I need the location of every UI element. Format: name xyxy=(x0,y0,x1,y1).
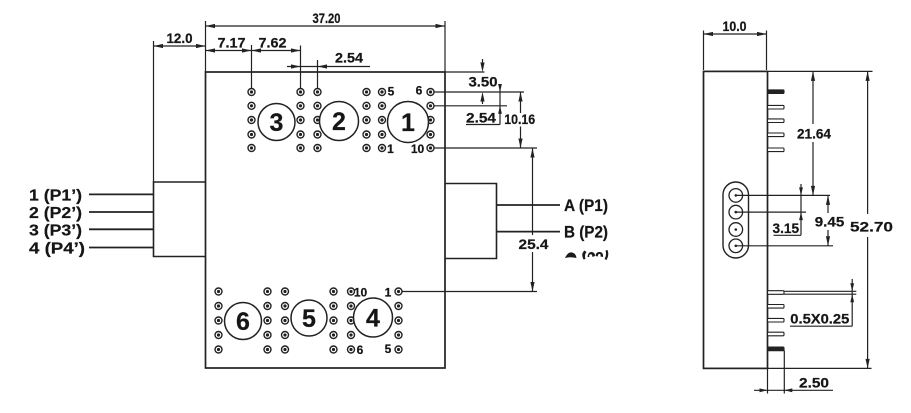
bottom edge extension line (to 52.70 dim) xyxy=(768,367,872,369)
svg-text:5: 5 xyxy=(388,85,395,99)
top pad grid (windings 1-3), 6 cols x 5 rows xyxy=(248,89,434,152)
body right edge extension below bottom xyxy=(767,368,769,393)
svg-text:10.0: 10.0 xyxy=(723,19,747,34)
dimension 7.17 xyxy=(206,50,252,52)
winding circle 5 xyxy=(291,300,327,336)
left view: main body outline xyxy=(206,72,446,368)
svg-text:21.64: 21.64 xyxy=(797,127,831,142)
leader from side pad 4 xyxy=(736,245,833,247)
extension line to pad col B xyxy=(300,46,302,89)
dimension 12.0 extension line xyxy=(153,41,155,182)
dimension 12.0 xyxy=(154,45,206,47)
svg-text:1: 1 xyxy=(401,109,415,137)
svg-text:37.20: 37.20 xyxy=(313,11,341,26)
bottom pad grid (windings 4-6), 6 cols x 5 rows xyxy=(215,288,402,353)
dimension 7.62 xyxy=(252,50,301,52)
partial erased label below B(P2) xyxy=(565,250,608,260)
svg-text:2: 2 xyxy=(332,108,346,136)
svg-text:2.54: 2.54 xyxy=(335,51,364,66)
side-view pad circle 2 xyxy=(729,205,743,219)
extension line to pad col C xyxy=(317,60,319,88)
pin end extension line xyxy=(783,351,785,394)
svg-text:0.5X0.25: 0.5X0.25 xyxy=(790,312,850,327)
dimension 52.70 (overall height) xyxy=(867,71,869,214)
svg-text:4: 4 xyxy=(366,305,380,333)
svg-text:5: 5 xyxy=(302,305,316,333)
svg-text:2.54: 2.54 xyxy=(466,111,497,126)
side-view pad circle 3 xyxy=(729,223,743,237)
dimension 3.50 xyxy=(482,59,484,68)
winding circle 6 xyxy=(225,303,262,340)
dimension 10.0 xyxy=(704,33,767,35)
right tab (secondary-side header) xyxy=(445,184,497,259)
lead wire 3 (left) xyxy=(89,228,154,230)
lead wire 4 (left) xyxy=(89,247,154,249)
lead wire 1 (left) xyxy=(89,193,154,195)
svg-text:A (P1): A (P1) xyxy=(564,197,608,215)
svg-text:1: 1 xyxy=(387,142,394,156)
top edge extension (right) xyxy=(445,71,485,73)
svg-text:3 (P3’): 3 (P3’) xyxy=(29,223,82,240)
svg-text:12.0: 12.0 xyxy=(167,31,193,46)
pin thickness extension lines (0.5x0.25) xyxy=(784,290,856,292)
svg-text:7.17: 7.17 xyxy=(218,36,246,51)
side-view pad circle 1 xyxy=(729,189,743,203)
lead wire B (right) xyxy=(497,231,561,233)
svg-text:3.50: 3.50 xyxy=(469,74,498,89)
leader line bottom block pin 1 xyxy=(402,291,537,293)
winding circle 2 xyxy=(320,102,359,141)
winding circle 1 xyxy=(388,102,429,143)
dimension 10.16 (rows 1-5) xyxy=(520,92,522,113)
svg-text:4 (P4’): 4 (P4’) xyxy=(29,241,85,258)
svg-text:3: 3 xyxy=(270,109,284,137)
pad stadium outline (side view) xyxy=(723,182,749,258)
svg-text:2 (P2’): 2 (P2’) xyxy=(29,205,82,222)
winding circle 3 xyxy=(258,104,295,141)
svg-text:2.50: 2.50 xyxy=(799,375,829,390)
svg-text:9.45: 9.45 xyxy=(815,215,845,230)
svg-text:1: 1 xyxy=(385,286,392,300)
svg-text:B (P2): B (P2) xyxy=(564,224,608,242)
svg-text:6: 6 xyxy=(236,308,250,336)
leader line pin row 1 (pin 6) xyxy=(435,91,525,93)
svg-text:3.15: 3.15 xyxy=(773,221,800,236)
dimension 9.45 (side pads 1-4) xyxy=(827,195,829,213)
svg-text:10: 10 xyxy=(411,142,425,156)
lead wire A (right) xyxy=(497,204,561,206)
svg-text:25.4: 25.4 xyxy=(519,237,550,252)
svg-text:5: 5 xyxy=(385,342,392,356)
dimension 10.0 extension lines xyxy=(703,31,705,71)
upper pins (side view) xyxy=(768,90,785,94)
svg-text:10: 10 xyxy=(354,286,368,300)
leader from side pad 2 xyxy=(736,211,806,213)
lower pins (side view) xyxy=(768,291,785,295)
dimension 25.4 (top block row5 to bottom block row1) xyxy=(532,148,534,235)
svg-text:1 (P1’): 1 (P1’) xyxy=(29,188,82,205)
side-view pad circle 4 xyxy=(729,239,743,253)
leader line pin row 2 xyxy=(435,105,508,107)
leader line pin row 5 (pin 10) xyxy=(435,147,538,149)
leader from side pad 1 xyxy=(736,194,830,196)
svg-text:7.62: 7.62 xyxy=(259,36,287,51)
dimension 37.20 extension lines xyxy=(205,21,207,72)
svg-text:52.70: 52.70 xyxy=(850,220,893,235)
side view body outline xyxy=(704,71,768,368)
dimension 2.50 xyxy=(754,389,833,391)
dimension 0.5X0.25 xyxy=(851,279,853,326)
lead wire 2 (left) xyxy=(89,211,154,213)
svg-text:6: 6 xyxy=(416,84,423,98)
dimension 21.64 xyxy=(812,71,814,124)
top edge extension line (to 21.64 / 52.70 dims) xyxy=(768,70,873,72)
svg-text:6: 6 xyxy=(357,343,364,357)
left tab (primary-side header) xyxy=(154,182,206,257)
extension line to pad col A xyxy=(251,45,253,88)
dimension 37.20 xyxy=(206,25,446,27)
dimension 2.54 (right, rows 1-2) xyxy=(499,84,501,125)
svg-text:10.16: 10.16 xyxy=(504,112,535,127)
winding circle 4 xyxy=(354,298,393,337)
dimension 3.15 (side pads 1-2) xyxy=(800,184,802,235)
dimension 2.54 (top) xyxy=(287,66,370,68)
